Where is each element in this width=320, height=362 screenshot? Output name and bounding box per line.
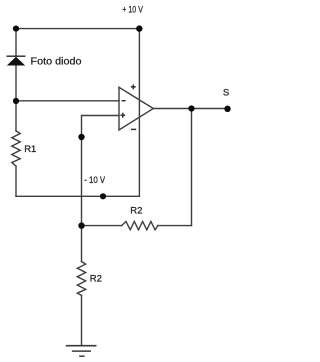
svg-text:Foto diodo: Foto diodo (31, 56, 82, 68)
svg-text:R2: R2 (90, 274, 102, 285)
svg-text:+ 10 V: + 10 V (122, 5, 143, 16)
svg-text:R2: R2 (130, 206, 142, 217)
svg-text:S: S (223, 88, 229, 99)
svg-text:R1: R1 (24, 144, 36, 155)
svg-text:- 10 V: - 10 V (84, 175, 106, 186)
